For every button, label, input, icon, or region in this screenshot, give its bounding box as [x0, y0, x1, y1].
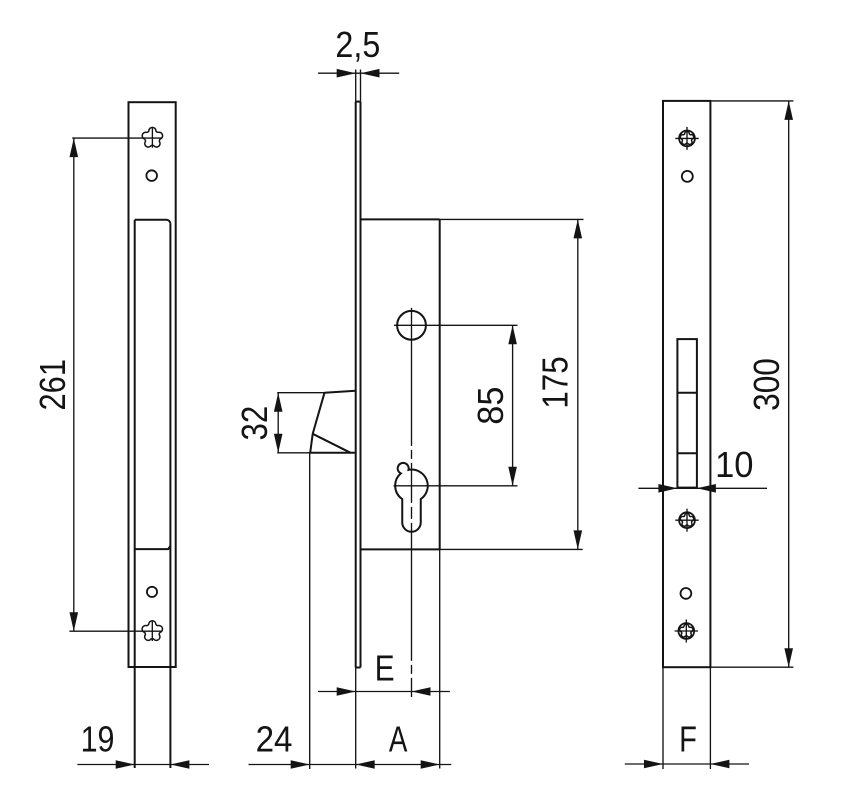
- svg-text:261: 261: [32, 359, 73, 411]
- middle view: latch front extension wire: [309, 453, 311, 769]
- right view: bottom screw: [675, 620, 698, 643]
- svg-text:A: A: [389, 719, 408, 760]
- middle view: latch bolt: [277, 391, 356, 453]
- middle view: lock case right edge wire: [439, 219, 441, 768]
- dimension 24 and A baseline: [249, 764, 452, 766]
- left view: plate bottom edge: [129, 666, 176, 668]
- middle view: faceplate left edge wire: [355, 70, 357, 769]
- right view: middle screw: [675, 509, 698, 532]
- left view: bottom torx screw: [142, 621, 162, 641]
- dimension 32: [234, 393, 283, 453]
- right view: latch top edge in cutout: [677, 392, 697, 394]
- middle view: keyhole euro cylinder: [395, 463, 428, 532]
- dimension E: [318, 648, 450, 696]
- svg-text:300: 300: [746, 358, 787, 411]
- middle view: vertical centerline: [411, 308, 413, 697]
- svg-text:F: F: [679, 719, 697, 760]
- dimension 261: [32, 138, 163, 631]
- svg-text:32: 32: [234, 406, 275, 441]
- left view: slot right edge wire: [169, 224, 171, 768]
- right view: faceplate outline: [663, 101, 710, 667]
- middle view: faceplate right edge wire: [360, 70, 362, 668]
- svg-text:10: 10: [715, 444, 753, 485]
- right view: right edge extension wire: [709, 667, 711, 769]
- dimension 300: [746, 101, 793, 667]
- dimension 19: [77, 719, 209, 769]
- dimension F: [625, 719, 749, 769]
- dimension 175: [535, 219, 583, 549]
- dimension 2,5: [318, 24, 399, 78]
- right view: lower hole: [681, 588, 692, 599]
- right view: plate top edge extension: [710, 100, 793, 102]
- dimension 10: [638, 444, 767, 493]
- middle view: handle hole center mark / 85 leader top: [394, 324, 518, 326]
- middle view: lock case bottom edge: [361, 548, 583, 550]
- svg-text:24: 24: [256, 719, 293, 760]
- right view: upper hole: [682, 171, 693, 182]
- right view: top screw: [675, 127, 698, 150]
- svg-text:E: E: [375, 648, 395, 689]
- left view: slot bottom edge: [135, 546, 171, 549]
- dimension 24 arrows and text: [256, 719, 310, 769]
- right view: latch cutout: [677, 339, 697, 488]
- svg-text:85: 85: [470, 387, 511, 425]
- middle view: lock case top edge: [361, 218, 584, 220]
- right view: latch bottom edge in cutout: [677, 452, 697, 454]
- left view: slot top edge: [135, 220, 171, 224]
- dimension A arrows and text: [356, 719, 440, 769]
- right view: plate bottom edge extension: [710, 666, 793, 668]
- svg-text:2,5: 2,5: [335, 24, 380, 65]
- svg-text:19: 19: [81, 719, 115, 760]
- left view: lower hole: [147, 587, 157, 597]
- right view: left edge extension wire: [662, 667, 664, 769]
- middle view: handle hub hole: [397, 311, 426, 340]
- middle view: keyhole center mark / 85 leader bottom: [394, 485, 518, 487]
- left view: counter plate outline: [129, 102, 176, 667]
- middle view: faceplate top end: [356, 101, 361, 103]
- left view: slot left edge wire: [134, 220, 136, 768]
- dimension 85: [470, 325, 517, 486]
- left view: top torx screw: [142, 127, 162, 147]
- middle view: faceplate bottom end: [356, 667, 361, 669]
- svg-text:175: 175: [535, 356, 576, 408]
- left view: upper hole: [146, 170, 157, 181]
